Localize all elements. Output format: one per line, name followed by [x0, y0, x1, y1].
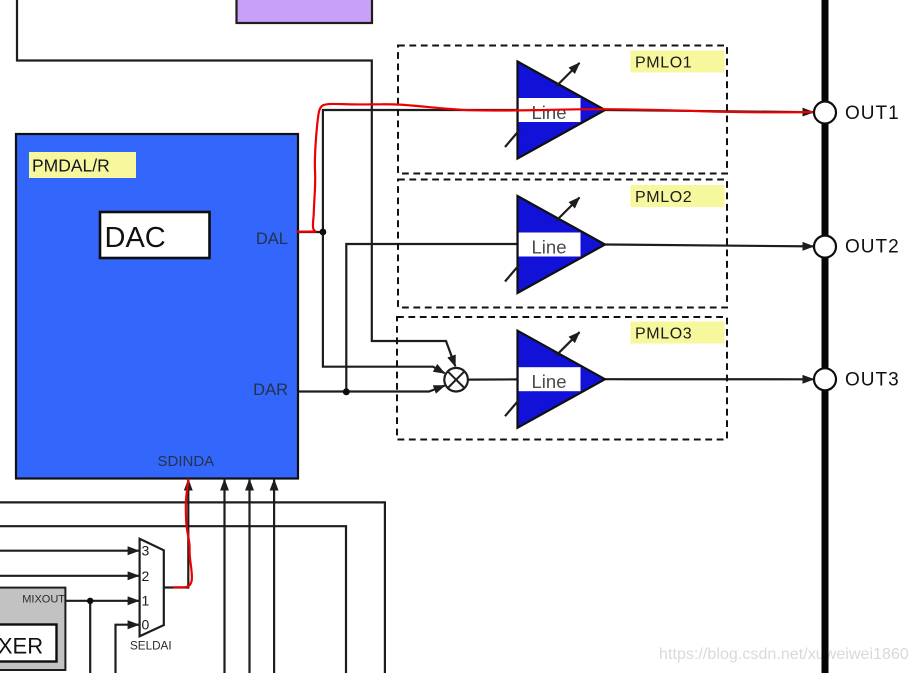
svg-text:OUT3: OUT3	[845, 369, 900, 390]
svg-text:0: 0	[142, 617, 150, 633]
svg-text:OUT2: OUT2	[845, 237, 900, 258]
svg-text:2: 2	[142, 568, 150, 584]
svg-text:SELDAI: SELDAI	[130, 640, 172, 653]
svg-text:Line: Line	[532, 371, 567, 392]
svg-text:PMLO2: PMLO2	[635, 189, 692, 206]
svg-text:Line: Line	[532, 102, 567, 123]
svg-text:MIXOUT: MIXOUT	[22, 594, 65, 606]
svg-text:PMDAL/R: PMDAL/R	[32, 156, 110, 176]
svg-text:SDINDA: SDINDA	[158, 453, 215, 470]
svg-text:MIXER: MIXER	[0, 634, 43, 659]
svg-text:1: 1	[142, 592, 150, 608]
svg-text:DAC: DAC	[105, 222, 166, 254]
svg-text:https://blog.csdn.net/xuweiwei: https://blog.csdn.net/xuweiwei1860	[659, 646, 909, 663]
svg-text:OUT1: OUT1	[845, 103, 900, 124]
svg-text:DAL: DAL	[256, 230, 288, 248]
svg-text:Line: Line	[532, 237, 567, 258]
svg-text:PMLO3: PMLO3	[635, 326, 692, 343]
svg-text:PMLO1: PMLO1	[635, 55, 692, 72]
svg-text:3: 3	[142, 542, 150, 558]
svg-text:DAR: DAR	[253, 381, 288, 399]
